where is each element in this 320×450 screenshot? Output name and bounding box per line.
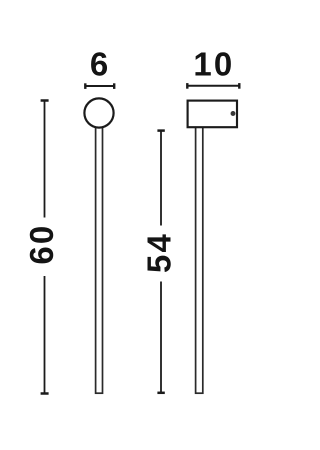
svg-text:6: 6 [90, 46, 108, 83]
right rod [196, 125, 203, 393]
svg-text:54: 54 [140, 232, 177, 273]
dimension label 60 (rotated) [23, 224, 60, 265]
wall-mount box [188, 101, 237, 128]
left rod [96, 118, 103, 393]
dimension line 60 (vertical with gap for label) [41, 101, 49, 394]
screw dot on box [231, 111, 236, 116]
dimension line 6 (horizontal with end ticks) [85, 83, 114, 89]
dimension label 6 [90, 46, 108, 83]
svg-text:60: 60 [23, 224, 60, 265]
dimension line 54 (vertical with gap for label) [157, 131, 164, 393]
ball head [84, 98, 113, 127]
svg-text:10: 10 [193, 46, 234, 83]
dimension line 10 (horizontal with end ticks) [187, 83, 239, 89]
dimension label 54 (rotated) [140, 232, 177, 273]
dimension label 10 [193, 46, 234, 83]
